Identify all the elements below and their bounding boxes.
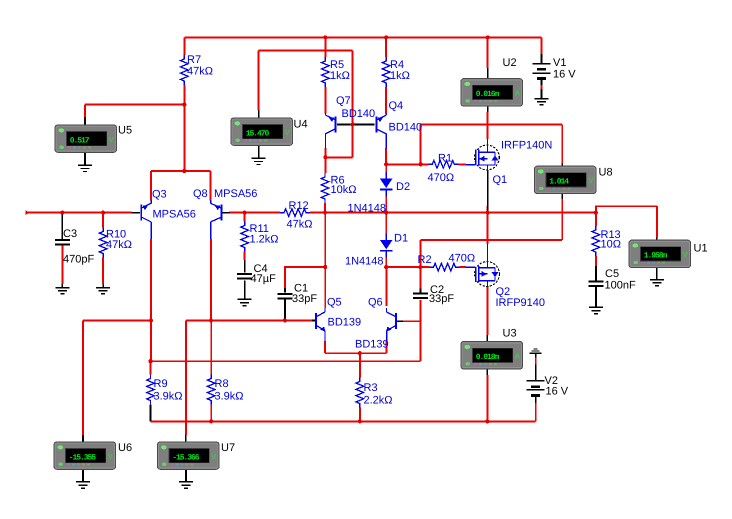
svg-text:R9: R9: [154, 378, 168, 390]
svg-text:V: V: [285, 128, 290, 137]
wire R10 black stub ground: [102, 284, 104, 287]
wire U6 black stubs: [82, 435, 84, 481]
svg-text:3.9kΩ: 3.9kΩ: [154, 391, 183, 403]
transistor Q7 BD140: [325, 113, 336, 149]
svg-text:V: V: [109, 135, 114, 144]
wire Q6 base black stub: [397, 320, 403, 322]
wire Q2 drain to U3: [486, 287, 488, 336]
wire mid line R12 to R13: [310, 212, 596, 214]
ground C4: [238, 299, 252, 307]
wire V2 black leads: [535, 354, 537, 404]
wire mid line Q8 base to R11: [229, 212, 280, 214]
svg-text:47kΩ: 47kΩ: [287, 219, 313, 231]
wire emitter join y=353: [325, 352, 387, 354]
svg-text:470pF: 470pF: [63, 254, 94, 266]
wire U2 black stubs: [487, 68, 489, 112]
wire Q2 gate bias column: [419, 240, 421, 288]
wire C3 black lead top: [61, 213, 63, 239]
wire VAS base line y=320: [186, 319, 312, 321]
ground C3: [55, 287, 69, 295]
wire U3 to negative rail: [486, 375, 488, 421]
wire C4 to ground black lead: [244, 281, 246, 299]
svg-text:3.9kΩ: 3.9kΩ: [215, 391, 244, 403]
wire U5 sense line: [85, 105, 184, 117]
wire R10 branch top: [102, 213, 104, 228]
wire U8 bottom column: [561, 199, 563, 240]
svg-text:470Ω: 470Ω: [449, 253, 476, 265]
svg-text:16 V: 16 V: [546, 386, 569, 398]
transistor Q8 MPSA56: [211, 200, 223, 239]
meter U5: [55, 125, 117, 152]
wire U1 link: [596, 206, 657, 237]
wire lower bias line y=240: [420, 239, 562, 241]
svg-text:R1: R1: [438, 153, 452, 165]
meter U6: [54, 442, 116, 469]
wire U1 black stubs: [656, 238, 658, 280]
wire U3 black stubs: [486, 335, 488, 375]
ground U7: [179, 481, 193, 489]
wire V2 red mid: [535, 358, 537, 365]
svg-text:R3: R3: [364, 382, 378, 394]
node Q8 collector VAS junction: [209, 318, 213, 322]
wire U6 U7 drops upper red: [83, 434, 186, 435]
transistor Q2 IRFP9140 mosfet: [466, 244, 499, 287]
svg-text:1N4148: 1N4148: [345, 256, 384, 268]
wire input black stub to Q3 base: [132, 212, 141, 214]
transistor Q5 BD139: [315, 308, 325, 342]
wire top +16V rail: [184, 36, 541, 38]
node R8 rail junction: [209, 419, 213, 423]
node C1 bottom junction: [283, 318, 287, 322]
wire V2 column: [535, 403, 537, 421]
diode D1: [380, 234, 393, 258]
svg-text:U7: U7: [221, 442, 235, 454]
node U2 top rail junction: [486, 35, 490, 39]
meter U4: [231, 118, 293, 145]
resistor R9: [147, 375, 155, 405]
svg-text:MPSA56: MPSA56: [153, 209, 196, 221]
wire upper bias line y=124.6: [421, 124, 563, 126]
battery V1: [532, 63, 550, 80]
ground C5: [589, 307, 603, 315]
wire negative rail y=421: [151, 420, 536, 422]
node Q3 collector feedback junction: [148, 359, 152, 363]
svg-text:U8: U8: [599, 167, 613, 179]
wire Q3 emitter riser: [150, 171, 152, 201]
wire Q5 emitter down: [324, 341, 326, 353]
svg-text:470Ω: 470Ω: [428, 172, 455, 184]
capacitor C1: [277, 293, 292, 300]
svg-text:Q8: Q8: [193, 188, 208, 200]
svg-text:0.517: 0.517: [70, 137, 90, 146]
wire R7 column bottom to tail node: [183, 85, 185, 171]
wire Q6 emitter down: [386, 341, 388, 353]
node input terminal: [26, 210, 30, 215]
wire emitter staple Q3-Q8: [151, 170, 211, 172]
wire C5 to ground black lead: [595, 287, 597, 307]
wire U6 tap: [83, 320, 151, 434]
capacitor C3: [55, 239, 70, 246]
node R6 bottom junction: [323, 211, 327, 215]
resistor R7: [181, 55, 189, 85]
svg-text:MPSA56: MPSA56: [214, 188, 257, 200]
transistor Q1 IRFP140N mosfet: [466, 139, 499, 171]
wire V1 black leads: [540, 54, 542, 98]
svg-text:A: A: [515, 89, 521, 98]
resistor R4: [382, 57, 390, 87]
wire R13 bottom to C5: [595, 256, 597, 266]
node D2 D1 mid junction: [384, 211, 388, 215]
resistor R12: [280, 209, 310, 217]
wire D1 cathode to R2 node: [386, 266, 420, 268]
svg-text:IRFP140N: IRFP140N: [501, 140, 552, 152]
wire Q8 base black stub: [223, 212, 230, 214]
svg-text:IRFP9140: IRFP9140: [496, 297, 546, 309]
svg-text:C3: C3: [63, 228, 77, 240]
wire U2 drop to Q1: [487, 112, 489, 139]
svg-text:Q1: Q1: [493, 174, 508, 186]
svg-text:V: V: [108, 452, 113, 461]
wire Q8 emitter riser: [210, 171, 212, 201]
node Q4 collector junction: [384, 162, 388, 166]
wire output to Q2: [487, 213, 489, 244]
svg-text:0.016m: 0.016m: [476, 90, 500, 99]
wire R1 right to Q1 gate: [458, 163, 466, 165]
wire Q6 collector column: [385, 267, 387, 306]
wire Q4 collector to bias node: [385, 148, 387, 164]
node R5 top rail junction: [323, 35, 327, 39]
wire mirror node jog: [325, 156, 352, 158]
svg-text:V: V: [588, 176, 593, 185]
svg-text:Q4: Q4: [389, 100, 404, 112]
meter U2: [461, 79, 523, 106]
svg-text:BD140: BD140: [389, 122, 423, 134]
wire C1 top link: [285, 267, 325, 288]
resistor R8: [207, 375, 215, 405]
svg-text:1N4148: 1N4148: [348, 203, 387, 215]
ground U5: [78, 165, 92, 173]
wire U5 drop: [183, 105, 185, 171]
resistor R10: [99, 228, 107, 258]
wire R2 left stub: [420, 266, 429, 268]
node emitter R3 junction: [358, 351, 362, 355]
svg-text:-15.355: -15.355: [69, 454, 97, 463]
transistor Q6 BD139: [386, 308, 397, 342]
node R13 junction: [594, 211, 598, 215]
wire U7 riser: [185, 320, 187, 434]
wire R2 right to Q2 gate: [460, 266, 467, 268]
wire VAS collector column: [324, 213, 326, 308]
svg-text:BD139: BD139: [328, 317, 362, 329]
svg-text:Q7: Q7: [336, 95, 351, 107]
node Q7 Q4 base junction: [351, 122, 355, 126]
wire Q6 base feedback line y=361: [151, 360, 421, 362]
svg-text:2.2kΩ: 2.2kΩ: [364, 395, 393, 407]
svg-text:U1: U1: [694, 243, 708, 255]
svg-text:U5: U5: [118, 125, 132, 137]
wire R4 to Q4 emitter: [385, 87, 387, 114]
node U6 tap junction: [149, 318, 153, 322]
wire C3 branch: [61, 246, 63, 285]
meter U3: [461, 342, 523, 369]
wire R9 bottom black: [150, 405, 152, 421]
svg-text:U3: U3: [503, 328, 517, 340]
wire R5 column top: [324, 37, 326, 57]
node C3 junction: [60, 211, 64, 215]
svg-text:Q6: Q6: [368, 297, 383, 309]
svg-text:1kΩ: 1kΩ: [390, 70, 410, 82]
svg-text:1kΩ: 1kΩ: [330, 70, 350, 82]
svg-text:A: A: [515, 351, 521, 360]
wire U2 top: [487, 37, 489, 68]
battery V2: [527, 380, 545, 397]
svg-text:BD139: BD139: [355, 339, 389, 351]
svg-text:D2: D2: [396, 181, 410, 193]
svg-text:-15.366: -15.366: [172, 454, 200, 463]
node U5 tap junction: [182, 103, 186, 107]
wire bias node to R1 corner: [386, 125, 421, 165]
ground V1: [534, 98, 548, 106]
meter U7: [158, 442, 220, 469]
resistor R3: [356, 378, 364, 408]
wire U4 top stub: [258, 50, 260, 110]
wire R10 branch bottom: [102, 258, 104, 285]
ground V2 inverted: [530, 348, 542, 354]
svg-text:33pF: 33pF: [429, 293, 454, 305]
wire R11 to C4 black lead: [244, 260, 246, 273]
svg-text:10kΩ: 10kΩ: [331, 184, 357, 196]
node R2 C2 junction: [418, 265, 422, 269]
wire C3 black lead bottom: [61, 284, 63, 287]
svg-text:V: V: [211, 452, 216, 461]
wire R7 column top: [183, 37, 185, 55]
svg-text:D1: D1: [394, 233, 408, 245]
svg-text:R7: R7: [187, 54, 201, 66]
wire D2 leads: [385, 164, 387, 212]
wire R8 bottom lead: [210, 405, 212, 422]
node output junction: [486, 211, 490, 215]
resistor R5: [322, 57, 330, 87]
svg-text:1.958m: 1.958m: [644, 252, 668, 261]
svg-text:R8: R8: [215, 378, 229, 390]
wire U8 black stubs: [561, 164, 563, 200]
ground U6: [76, 481, 90, 489]
node R11 junction: [243, 211, 247, 215]
resistor R6: [321, 173, 329, 203]
transistor Q3 MPSA56: [140, 200, 151, 239]
resistor R2: [430, 263, 460, 271]
wire D1 leads: [385, 213, 387, 268]
svg-text:U6: U6: [118, 442, 132, 454]
node R3 rail junction: [358, 419, 362, 423]
wire Q3 collector column: [150, 239, 152, 361]
capacitor C4: [237, 273, 252, 280]
resistor R11: [241, 222, 249, 252]
wire U5 black stub top: [84, 117, 86, 125]
wire Q8 collector column: [210, 239, 212, 375]
ground U4: [252, 158, 266, 166]
ground U1: [650, 279, 664, 287]
wire R11 C4 column: [244, 213, 246, 260]
wire R4 column top: [385, 37, 387, 57]
wire U4 black stubs: [258, 110, 260, 158]
svg-text:47µF: 47µF: [251, 273, 277, 285]
svg-text:R12: R12: [289, 200, 309, 212]
svg-text:47kΩ: 47kΩ: [187, 66, 213, 78]
svg-text:BD140: BD140: [342, 108, 376, 120]
node tail junction: [182, 169, 186, 173]
wire C2 black leads: [419, 289, 421, 293]
wire U7 black stubs: [185, 435, 187, 481]
node D1 cathode junction: [384, 265, 388, 269]
svg-text:Q5: Q5: [327, 297, 342, 309]
wire R3 leads: [359, 353, 361, 421]
svg-text:47kΩ: 47kΩ: [106, 239, 132, 251]
svg-text:33pF: 33pF: [292, 293, 317, 305]
svg-text:Q3: Q3: [152, 189, 167, 201]
node U3 rail junction: [485, 419, 489, 423]
wire Q6 base link: [403, 300, 420, 321]
node R4 top rail junction: [384, 35, 388, 39]
wire U5 black stub bottom: [84, 152, 86, 165]
wire R13 to C5 black lead: [595, 266, 597, 281]
wire Q1 source black lead: [487, 170, 489, 212]
svg-text:U2: U2: [503, 57, 517, 69]
wire Q7 collector to mirror node: [324, 148, 326, 157]
wire R6 leads: [324, 157, 327, 212]
capacitor C2: [413, 293, 428, 300]
wire Q5 base black stub: [312, 319, 315, 321]
wire U4 riser: [259, 50, 353, 157]
transistor Q4 BD140: [375, 113, 386, 149]
svg-text:C5: C5: [605, 268, 619, 280]
resistor R1: [428, 161, 458, 169]
node R10 junction: [101, 211, 105, 215]
svg-text:0.018m: 0.018m: [476, 353, 500, 362]
svg-text:V: V: [683, 250, 688, 259]
wire input line: [28, 212, 132, 214]
wire R1 left stub: [421, 163, 429, 165]
meter U8: [535, 166, 597, 193]
svg-text:R2: R2: [418, 254, 432, 266]
svg-text:100nF: 100nF: [605, 280, 636, 292]
svg-text:1.2kΩ: 1.2kΩ: [250, 234, 279, 246]
capacitor C5: [588, 280, 603, 287]
svg-text:16 V: 16 V: [553, 69, 576, 81]
wire output node column up: [487, 206, 489, 213]
svg-text:1.014: 1.014: [549, 178, 569, 187]
node C1 top junction: [323, 265, 327, 269]
wire V1 column: [540, 37, 542, 89]
wire C2 to y361 line: [419, 321, 421, 361]
diode D2: [380, 172, 393, 197]
ground R10: [96, 287, 110, 295]
node mirror collector junction: [323, 155, 327, 159]
wire R9 leads: [150, 361, 152, 421]
svg-text:U4: U4: [294, 119, 308, 131]
wire R5 to Q7 emitter: [324, 87, 326, 114]
resistor R13: [592, 226, 600, 256]
svg-text:10Ω: 10Ω: [601, 239, 621, 251]
meter U1: [629, 240, 691, 267]
wire C1 black leads: [284, 288, 286, 320]
wire U8 top column: [561, 125, 563, 164]
svg-text:V1: V1: [553, 57, 566, 69]
wire Q7 Q4 base link: [337, 123, 375, 125]
node R1 corner junction: [419, 162, 423, 166]
wire R13 top: [595, 213, 597, 226]
svg-text:15.470: 15.470: [246, 130, 270, 139]
